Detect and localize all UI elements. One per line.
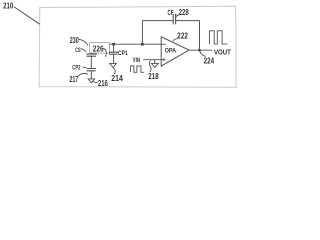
leader from CS — [81, 49, 87, 53]
capacitor CS — [90, 53, 92, 54]
svg-text:218: 218 — [148, 72, 159, 81]
leader from 230 to switch block — [79, 39, 88, 45]
svg-text:224: 224 — [204, 57, 215, 66]
node junction dot at output — [198, 49, 201, 52]
svg-text:CF: CF — [168, 10, 174, 17]
wire: feedback top run right of CF — [176, 20, 200, 22]
wire: ground branch from plus input — [154, 60, 156, 64]
svg-text:CP1: CP1 — [118, 50, 128, 57]
wire: feedback down to output node — [199, 21, 201, 51]
switch block 226 — [90, 43, 110, 53]
capacitor CP1 — [113, 44, 115, 52]
svg-text:210: 210 — [3, 1, 14, 10]
wire: VIN to non-inverting input — [143, 59, 165, 61]
leader from 217 — [78, 73, 88, 76]
wire: CP1 to ground — [113, 54, 115, 63]
leader from 224 to output node — [200, 52, 206, 57]
wire: feedback vertical riser — [141, 21, 143, 45]
ground at plus input — [151, 63, 158, 67]
node junction dot CP1 — [112, 43, 115, 46]
wire: op-amp output — [189, 49, 212, 51]
leader from ground to 214 — [113, 68, 115, 75]
tick from CP2 — [83, 66, 87, 69]
leader from 218 — [149, 61, 151, 72]
svg-text:228: 228 — [179, 8, 189, 17]
svg-text:CP2: CP2 — [72, 64, 81, 71]
leader from 222 to op-amp — [173, 39, 178, 42]
op-amp U1 OPA — [161, 37, 189, 66]
leader from 210 to box — [14, 7, 40, 25]
svg-text:217: 217 — [69, 75, 78, 84]
capacitor CP2 — [87, 69, 97, 71]
svg-text:216: 216 — [98, 79, 108, 88]
ground under CP2 — [88, 79, 94, 83]
svg-text:OPA: OPA — [165, 48, 177, 55]
wire: main signal wire to inverting input — [110, 43, 167, 45]
wire: feedback top run left of CF — [142, 20, 173, 22]
svg-text:214: 214 — [111, 74, 123, 83]
svg-text:222: 222 — [177, 31, 188, 40]
leader from 226 — [103, 48, 106, 57]
VOUT pulse waveform — [209, 31, 227, 44]
svg-text:230: 230 — [70, 36, 79, 45]
node junction dot at riser — [141, 43, 144, 46]
enclosure box 210 — [39, 6, 236, 87]
wire: CP2 to ground — [90, 71, 92, 79]
svg-text:226: 226 — [93, 44, 104, 53]
svg-text:CS: CS — [75, 47, 80, 54]
VIN pulse waveform — [130, 66, 144, 72]
leader from 216 to ground — [93, 81, 98, 83]
svg-text:VIN: VIN — [133, 57, 141, 64]
svg-text:VOUT: VOUT — [214, 47, 231, 56]
capacitor CF — [173, 14, 175, 25]
ground under CP1 — [110, 63, 117, 67]
plus input mark — [163, 58, 165, 61]
wire: CS to CP2 — [90, 56, 92, 68]
leader from 228 to CF — [176, 15, 180, 18]
